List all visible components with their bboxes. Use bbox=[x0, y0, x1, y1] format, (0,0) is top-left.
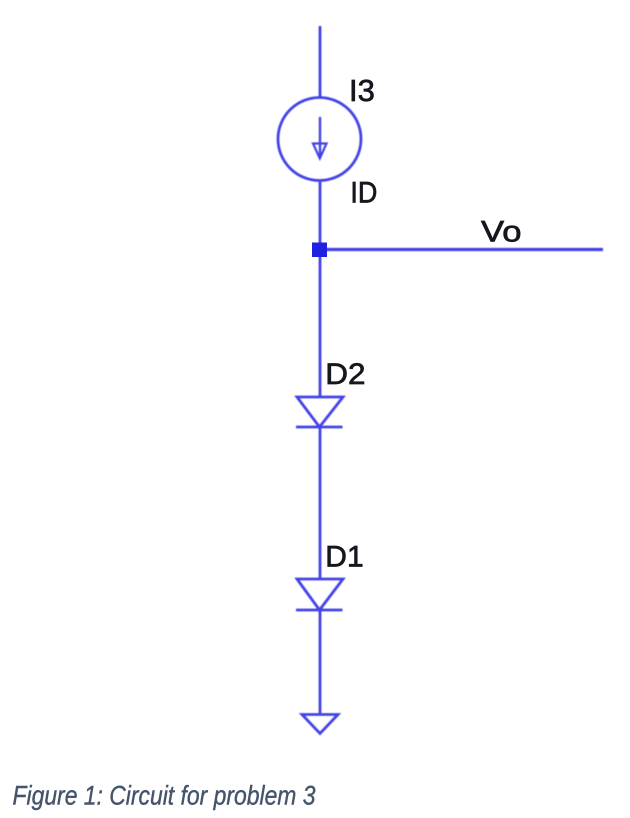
wire top segment into current source bbox=[319, 26, 322, 98]
svg-text:D1: D1 bbox=[325, 541, 363, 574]
svg-text:Figure 1: Circuit for problem: Figure 1: Circuit for problem 3 bbox=[13, 781, 316, 811]
current source I3 circle bbox=[278, 98, 361, 181]
svg-text:D2: D2 bbox=[325, 358, 365, 391]
ground symbol bbox=[302, 715, 338, 734]
wire horizontal to Vo bbox=[320, 248, 603, 251]
current source arrow shaft bbox=[319, 117, 321, 156]
node junction at Vo bbox=[312, 243, 327, 258]
wire D2 to D1 bbox=[319, 427, 322, 579]
svg-text:Vo: Vo bbox=[481, 216, 522, 249]
diode D1 cathode bar bbox=[296, 609, 343, 612]
current source arrowhead bbox=[313, 144, 327, 159]
diode D1 triangle bbox=[297, 579, 343, 610]
diode D2 cathode bar bbox=[296, 426, 343, 429]
svg-text:I3: I3 bbox=[349, 73, 375, 108]
wire from source to node and down to D2 bbox=[319, 180, 322, 397]
wire D1 to ground bbox=[319, 610, 322, 715]
svg-text:ID: ID bbox=[350, 176, 377, 209]
diode D2 triangle bbox=[297, 397, 343, 427]
